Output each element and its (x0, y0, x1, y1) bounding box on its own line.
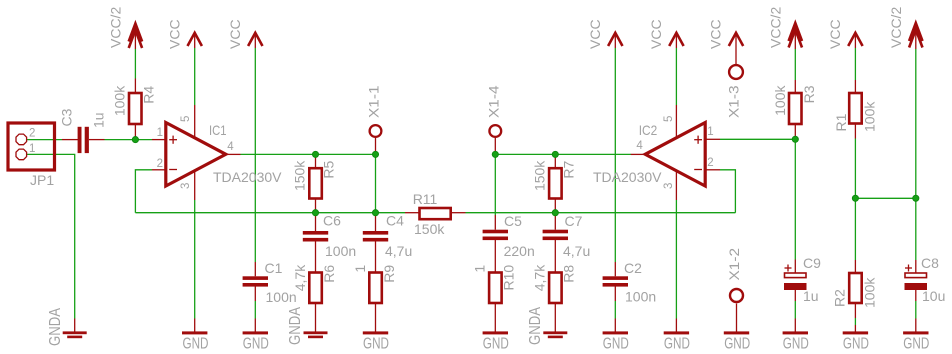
svg-text:GNDA: GNDA (287, 306, 304, 345)
svg-text:1: 1 (352, 265, 368, 273)
svg-text:1u: 1u (91, 112, 107, 128)
svg-text:GNDA: GNDA (527, 306, 544, 345)
svg-text:R5: R5 (321, 160, 337, 178)
svg-text:4,7k: 4,7k (532, 264, 548, 291)
svg-text:150k: 150k (292, 160, 308, 191)
svg-text:3: 3 (663, 183, 675, 189)
svg-text:GND: GND (183, 336, 209, 353)
svg-text:100k: 100k (861, 277, 877, 308)
svg-text:2: 2 (707, 157, 713, 169)
svg-text:GND: GND (843, 336, 869, 353)
svg-text:C5: C5 (504, 213, 522, 229)
svg-text:R1: R1 (833, 113, 849, 131)
svg-text:10u: 10u (922, 288, 945, 304)
svg-text:GND: GND (603, 336, 629, 353)
svg-text:R6: R6 (321, 265, 337, 283)
svg-text:GND: GND (664, 336, 690, 353)
svg-text:VCC: VCC (648, 19, 664, 49)
svg-text:IC2: IC2 (639, 122, 658, 138)
svg-text:2: 2 (29, 128, 35, 140)
svg-text:GND: GND (243, 336, 269, 353)
svg-text:1: 1 (472, 265, 488, 273)
svg-text:X1-2: X1-2 (726, 248, 742, 281)
svg-text:IC1: IC1 (209, 122, 227, 138)
svg-text:100k: 100k (772, 85, 788, 116)
svg-text:X1-4: X1-4 (485, 85, 501, 118)
svg-text:C6: C6 (323, 213, 341, 229)
svg-text:R2: R2 (832, 289, 848, 307)
svg-text:TDA2030V: TDA2030V (213, 169, 282, 185)
svg-text:3: 3 (180, 183, 192, 189)
svg-text:VCC: VCC (827, 19, 843, 49)
svg-text:VCC/2: VCC/2 (108, 7, 124, 48)
svg-text:X1-1: X1-1 (366, 85, 382, 118)
svg-text:1: 1 (707, 126, 713, 138)
svg-text:4: 4 (227, 141, 234, 153)
svg-text:JP1: JP1 (30, 172, 54, 188)
svg-text:VCC/2: VCC/2 (888, 7, 904, 48)
svg-text:GND: GND (783, 336, 809, 353)
svg-text:4,7k: 4,7k (292, 264, 308, 291)
svg-text:4,7u: 4,7u (385, 243, 412, 259)
svg-text:GND: GND (724, 336, 750, 353)
svg-text:GND: GND (903, 336, 929, 353)
svg-text:R11: R11 (413, 191, 438, 207)
svg-text:5: 5 (663, 116, 675, 122)
svg-text:C2: C2 (624, 260, 642, 276)
svg-text:GND: GND (363, 336, 389, 353)
svg-text:VCC: VCC (587, 19, 603, 49)
svg-text:VCC: VCC (708, 19, 724, 49)
svg-text:220n: 220n (504, 243, 535, 259)
svg-text:4,7u: 4,7u (563, 243, 590, 259)
svg-text:100n: 100n (325, 243, 356, 259)
svg-text:1u: 1u (803, 288, 819, 304)
svg-text:100n: 100n (625, 289, 656, 305)
svg-text:R10: R10 (501, 265, 517, 291)
svg-text:VCC/2: VCC/2 (768, 7, 784, 48)
svg-text:R9: R9 (381, 265, 397, 283)
svg-text:GNDA: GNDA (47, 307, 64, 346)
svg-text:VCC: VCC (167, 19, 183, 49)
svg-text:100n: 100n (266, 289, 297, 305)
svg-text:C9: C9 (803, 255, 821, 271)
svg-text:5: 5 (180, 116, 192, 122)
svg-text:C3: C3 (59, 108, 75, 126)
svg-text:C1: C1 (265, 260, 283, 276)
svg-text:R3: R3 (801, 85, 817, 103)
svg-text:GND: GND (483, 336, 509, 353)
svg-text:150k: 150k (414, 221, 445, 237)
svg-text:TDA2030V: TDA2030V (593, 169, 662, 185)
svg-text:C7: C7 (565, 213, 583, 229)
svg-text:X1-3: X1-3 (726, 85, 742, 118)
svg-text:VCC: VCC (227, 19, 243, 49)
svg-text:150k: 150k (531, 160, 547, 191)
svg-text:R7: R7 (560, 160, 576, 178)
svg-text:100k: 100k (112, 85, 128, 116)
svg-text:R8: R8 (561, 265, 577, 283)
svg-text:1: 1 (29, 143, 35, 155)
svg-text:C8: C8 (921, 255, 939, 271)
svg-text:C4: C4 (386, 213, 404, 229)
svg-text:100k: 100k (862, 101, 878, 132)
svg-text:R4: R4 (141, 86, 157, 104)
svg-text:2: 2 (157, 158, 163, 170)
svg-text:4: 4 (636, 140, 643, 152)
svg-text:1: 1 (157, 127, 163, 139)
